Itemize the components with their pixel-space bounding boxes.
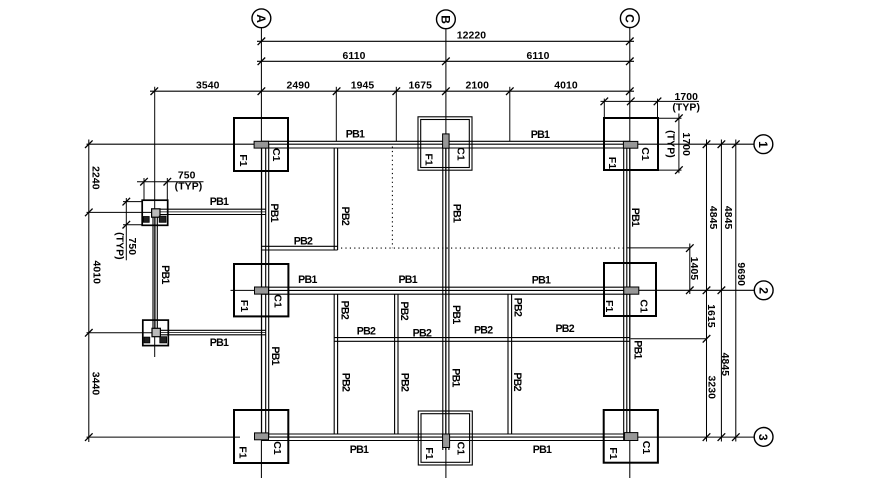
svg-text:1700: 1700: [680, 132, 691, 156]
label F1 @B3: [423, 447, 435, 460]
svg-text:6110: 6110: [343, 51, 366, 62]
svg-text:PB1: PB1: [210, 337, 229, 349]
label F1 @C1: [606, 157, 618, 170]
svg-text:PB2: PB2: [340, 373, 352, 392]
grid bubble B: [437, 10, 456, 29]
beam PB2 at x=510 lower: [508, 294, 512, 434]
label PB1 beam C middle: [632, 340, 644, 359]
svg-text:C: C: [622, 14, 636, 23]
footing F1 @B1 inner: [421, 120, 470, 168]
dim ticks third row: [151, 87, 634, 95]
svg-text:PB1: PB1: [269, 346, 281, 365]
grid line 3 left segment: [87, 436, 241, 438]
dim text 3540: [196, 81, 220, 92]
dim text 1700 top: [674, 92, 698, 103]
svg-text:1615: 1615: [705, 304, 716, 328]
svg-text:3440: 3440: [89, 372, 100, 396]
svg-text:4010: 4010: [90, 261, 101, 285]
label PB1 row2 span3: [532, 275, 551, 287]
footing F1 @A2: [234, 264, 288, 316]
wing beam PB1 upper horizontal: [155, 209, 266, 214]
svg-text:(TYP): (TYP): [665, 130, 676, 158]
svg-text:F1: F1: [603, 300, 615, 313]
grid line 2 left stub: [231, 289, 255, 291]
dim ticks 1700 horiz: [601, 98, 662, 106]
dim ticks 6110: [258, 58, 634, 66]
label PB2 y339 span2: [413, 327, 432, 339]
svg-text:PB2: PB2: [338, 301, 350, 320]
dim text 6110 left: [343, 51, 366, 62]
extension line x=396: [395, 87, 397, 142]
label C1 @C1: [639, 147, 651, 161]
column C1 @A3 (gray): [255, 433, 269, 440]
dim line 3540-2490-1945-1675-2100-4010: [150, 90, 634, 92]
svg-text:750: 750: [178, 170, 196, 181]
label F1 @B1: [422, 153, 434, 166]
dim text 12220: [457, 31, 487, 42]
svg-text:PB1: PB1: [450, 204, 462, 223]
svg-text:F1: F1: [237, 154, 249, 167]
beam PB1 on grid 3 (row3): [262, 434, 630, 441]
label PB1 row1 span B-C: [531, 129, 550, 141]
svg-text:PB2: PB2: [413, 327, 432, 339]
wing footing upper: [142, 200, 168, 225]
label PB1 wing vertical: [159, 265, 171, 284]
dim text 750 horiz: [178, 170, 196, 181]
svg-text:PB2: PB2: [339, 207, 351, 226]
extension lines 750 horiz: [144, 178, 167, 200]
svg-text:F1: F1: [422, 153, 434, 166]
label PB1 row2 span2: [398, 274, 417, 286]
svg-text:4845: 4845: [707, 206, 718, 230]
svg-text:PB1: PB1: [533, 444, 552, 456]
wing column lower: [152, 328, 160, 336]
right dim line 1615/3230: [706, 140, 708, 442]
solid line y=248 from C beam to 1405 dim: [627, 247, 690, 249]
svg-text:2: 2: [756, 287, 770, 294]
svg-text:(TYP): (TYP): [114, 232, 125, 260]
wing footing lower tiny marks: [144, 337, 167, 343]
label PB2 x396 middle: [398, 301, 410, 320]
dim text 2490: [286, 81, 310, 92]
dim text 9690: [735, 262, 746, 286]
grid line 1 left segment: [87, 143, 255, 145]
dim text 4845 lower: [719, 353, 730, 377]
svg-text:2240: 2240: [90, 166, 101, 190]
svg-text:C1: C1: [271, 441, 283, 455]
svg-text:12220: 12220: [457, 31, 487, 42]
dim text (TYP) vertical: [665, 130, 676, 158]
svg-text:6110: 6110: [527, 51, 550, 62]
grid line B (vertical): [445, 29, 447, 478]
wing column upper: [152, 209, 160, 217]
beam PB2 at x=396 lower: [395, 294, 398, 434]
svg-text:PB1: PB1: [398, 274, 417, 286]
beam PB2 at x=336 upper: [334, 148, 337, 250]
dim text 1615: [705, 304, 716, 328]
wing footing upper tiny marks: [143, 216, 166, 222]
extension lines 1700 horiz: [604, 99, 657, 118]
grid line A (vertical): [260, 28, 262, 478]
svg-text:4845: 4845: [719, 353, 730, 377]
dim line 750 horizontal: [137, 181, 204, 183]
svg-text:PB2: PB2: [398, 301, 410, 320]
svg-text:PB1: PB1: [159, 265, 171, 284]
svg-text:750: 750: [126, 237, 137, 255]
svg-text:F1: F1: [607, 447, 619, 460]
label PB2 x510 upper: [511, 298, 523, 317]
dim ticks 1700 vert: [675, 114, 683, 173]
svg-text:PB1: PB1: [298, 274, 317, 286]
wing axis upper: [87, 211, 153, 213]
dim text 4010 left: [90, 261, 101, 285]
column C1 @A1 (gray): [254, 141, 269, 148]
column C1 @C1 (gray): [623, 141, 637, 148]
dim text (TYP) horiz: [175, 182, 203, 193]
label PB1 row3 span2: [533, 444, 552, 456]
svg-text:PB2: PB2: [511, 372, 523, 391]
left dim ticks: [85, 140, 93, 441]
svg-text:C1: C1: [640, 441, 652, 455]
dim text 4845 upper a: [707, 206, 718, 230]
label PB2 x510 lower: [511, 372, 523, 391]
dim text 2240: [90, 166, 101, 190]
label PB2 x336 lower: [340, 373, 352, 392]
dim line 1405: [689, 244, 691, 295]
svg-text:A: A: [254, 14, 268, 23]
svg-text:PB2: PB2: [474, 324, 493, 336]
footing F1 @C2: [604, 263, 656, 316]
dim text 750 vert: [126, 237, 137, 255]
extension line y=338.8: [631, 338, 707, 340]
svg-text:1700: 1700: [674, 92, 698, 103]
svg-text:3540: 3540: [196, 81, 220, 92]
wing axis lower: [87, 332, 153, 334]
beam PB2 at x=336 lower: [334, 294, 337, 434]
svg-text:2490: 2490: [286, 81, 310, 92]
label PB1 row2 span1: [298, 274, 317, 286]
svg-text:PB1: PB1: [210, 196, 229, 208]
column C1 @B1 (gray): [443, 134, 450, 148]
footing F1 @A3: [234, 410, 288, 463]
grid bubble 2: [754, 281, 773, 300]
svg-text:PB1: PB1: [450, 305, 462, 324]
dim line 750 vertical: [125, 198, 127, 260]
svg-text:C1: C1: [270, 148, 282, 162]
dotted line horizontal y=248.1: [341, 247, 624, 249]
svg-text:4010: 4010: [554, 81, 578, 92]
dim ticks 12220: [258, 38, 634, 46]
dim ticks 750 horiz: [140, 178, 171, 186]
extension line x=510: [509, 87, 511, 142]
svg-text:PB1: PB1: [450, 368, 462, 387]
label C1 @B3: [455, 442, 467, 456]
dim line 1700 TYP horizontal: [601, 100, 700, 102]
svg-text:F1: F1: [238, 300, 250, 313]
beam PB1 on grid 2 (row2): [262, 287, 630, 294]
label PB1 beam C upper: [629, 208, 641, 227]
dim text (TYP) top: [672, 102, 700, 113]
dotted line vertical x=392.4: [391, 147, 393, 249]
extension lines 1700 vert: [658, 118, 682, 170]
svg-text:3: 3: [756, 434, 770, 441]
left dim line: [88, 140, 90, 443]
label PB2 y339 span3: [474, 324, 493, 336]
label PB2 x396 lower: [399, 373, 411, 392]
column C1 @A2 (gray): [255, 287, 269, 294]
grid bubble C: [620, 9, 639, 28]
svg-text:PB1: PB1: [532, 275, 551, 287]
dim text 1700 vertical: [680, 132, 691, 156]
beam PB2 at y=248: [262, 246, 338, 250]
svg-text:PB2: PB2: [555, 323, 574, 335]
label PB1 wing upper: [210, 196, 229, 208]
label C1 @C2: [638, 299, 650, 313]
footing F1 @C3: [604, 410, 658, 463]
svg-text:9690: 9690: [735, 262, 746, 286]
label PB1 wing lower: [210, 337, 229, 349]
grid bubble A: [252, 9, 271, 28]
svg-text:PB1: PB1: [346, 129, 365, 141]
beam PB1 on grid B (vertical): [443, 144, 449, 450]
svg-text:1405: 1405: [688, 257, 699, 281]
label PB2 x336 middle: [338, 301, 350, 320]
svg-text:F1: F1: [423, 447, 435, 460]
right dim ticks x721: [718, 140, 726, 441]
label PB2 y339 span1: [357, 325, 376, 337]
svg-text:PB1: PB1: [350, 444, 369, 456]
svg-text:2100: 2100: [466, 81, 490, 92]
right dim ticks x706: [703, 140, 711, 441]
label F1 @A2: [238, 300, 250, 313]
grid bubble 1: [754, 135, 773, 154]
dim line 12220: [257, 40, 634, 42]
svg-text:F1: F1: [237, 446, 249, 459]
svg-text:PB1: PB1: [629, 208, 641, 227]
svg-text:C1: C1: [638, 299, 650, 313]
wing axis vertical: [154, 87, 156, 357]
svg-text:3230: 3230: [706, 376, 717, 400]
grid line C (vertical): [629, 28, 631, 478]
footing F1 @C1: [604, 118, 658, 170]
dim text 1405: [688, 257, 699, 281]
label PB2 room bottom: [294, 235, 313, 247]
extension line x=336: [335, 87, 337, 142]
label PB1 beam A lower: [269, 346, 281, 365]
svg-text:PB2: PB2: [357, 325, 376, 337]
svg-text:(TYP): (TYP): [175, 182, 203, 193]
footing F1 @B3 outer: [418, 411, 472, 465]
dim text 3230: [706, 376, 717, 400]
label F1 @A3: [237, 446, 249, 459]
beam PB1 on grid C (vertical): [624, 144, 630, 440]
column C1 @B3 (gray): [443, 434, 450, 448]
svg-text:PB2: PB2: [399, 373, 411, 392]
label PB1 row1 span A-B: [346, 129, 365, 141]
dim text 4010: [554, 81, 578, 92]
dim text 4845 upper b: [722, 206, 733, 230]
svg-text:PB1: PB1: [531, 129, 550, 141]
svg-text:PB1: PB1: [632, 340, 644, 359]
svg-text:PB2: PB2: [511, 298, 523, 317]
dim ticks 1405: [686, 244, 694, 294]
right dim line 4845/4845: [720, 140, 722, 442]
dim text 6110 right: [527, 51, 550, 62]
wing beam PB1 lower horizontal: [155, 330, 266, 335]
right dim line 9690: [735, 140, 737, 442]
dim line 6110+6110: [257, 60, 634, 62]
beam PB1 on grid 1 (row1): [262, 141, 630, 148]
wing beam PB1 vertical: [153, 212, 157, 332]
beam PB1 on grid A (vertical): [262, 144, 269, 437]
svg-text:1945: 1945: [351, 81, 375, 92]
svg-text:C1: C1: [272, 294, 284, 308]
svg-text:C1: C1: [455, 442, 467, 456]
dim ticks 750 vert: [123, 198, 131, 229]
svg-text:1675: 1675: [408, 81, 432, 92]
footing F1 @A1: [234, 118, 288, 171]
extension lines 750 vert: [123, 202, 142, 225]
svg-text:PB2: PB2: [294, 235, 313, 247]
svg-text:B: B: [439, 15, 453, 24]
label PB1 beam B lower: [450, 368, 462, 387]
right dim ticks x735: [732, 140, 740, 441]
svg-text:4845: 4845: [722, 206, 733, 230]
dim text (TYP) vert: [114, 232, 125, 260]
column C1 @C2 (gray): [624, 287, 639, 294]
label PB1 beam B middle: [450, 305, 462, 324]
svg-text:C1: C1: [639, 147, 651, 161]
label C1 @C3: [640, 441, 652, 455]
dim text 3440: [89, 372, 100, 396]
footing F1 @B3 inner: [421, 414, 470, 463]
grid line 2 right segment: [639, 289, 755, 291]
label F1 @A1: [237, 154, 249, 167]
dim text 1945: [351, 81, 375, 92]
dim line 1700 TYP vertical: [678, 114, 680, 174]
label F1 @C2: [603, 300, 615, 313]
grid bubble 3: [754, 428, 773, 447]
column C1 @C3 (gray): [624, 433, 637, 441]
grid line 3 right segment: [630, 436, 754, 438]
svg-text:C1: C1: [455, 147, 467, 161]
grid line 1 right segment: [638, 143, 754, 145]
beam PB2 at y=339.5: [334, 338, 630, 342]
label C1 @A2: [272, 294, 284, 308]
label C1 @B1: [455, 147, 467, 161]
label PB1 row3 span1: [350, 444, 369, 456]
label PB1 beam B upper: [450, 204, 462, 223]
wing footing lower: [143, 320, 169, 346]
svg-text:F1: F1: [606, 157, 618, 170]
label PB2 y339 span4: [555, 323, 574, 335]
dim text 1675: [408, 81, 432, 92]
label C1 @A1: [270, 148, 282, 162]
label PB2 x336 upper: [339, 207, 351, 226]
svg-text:1: 1: [756, 141, 770, 148]
svg-text:(TYP): (TYP): [672, 102, 700, 113]
svg-text:PB1: PB1: [268, 203, 280, 222]
dim text 2100: [466, 81, 490, 92]
label PB1 beam A upper: [268, 203, 280, 222]
footing F1 @B1 outer: [418, 117, 472, 170]
label F1 @C3: [607, 447, 619, 460]
label C1 @A3: [271, 441, 283, 455]
